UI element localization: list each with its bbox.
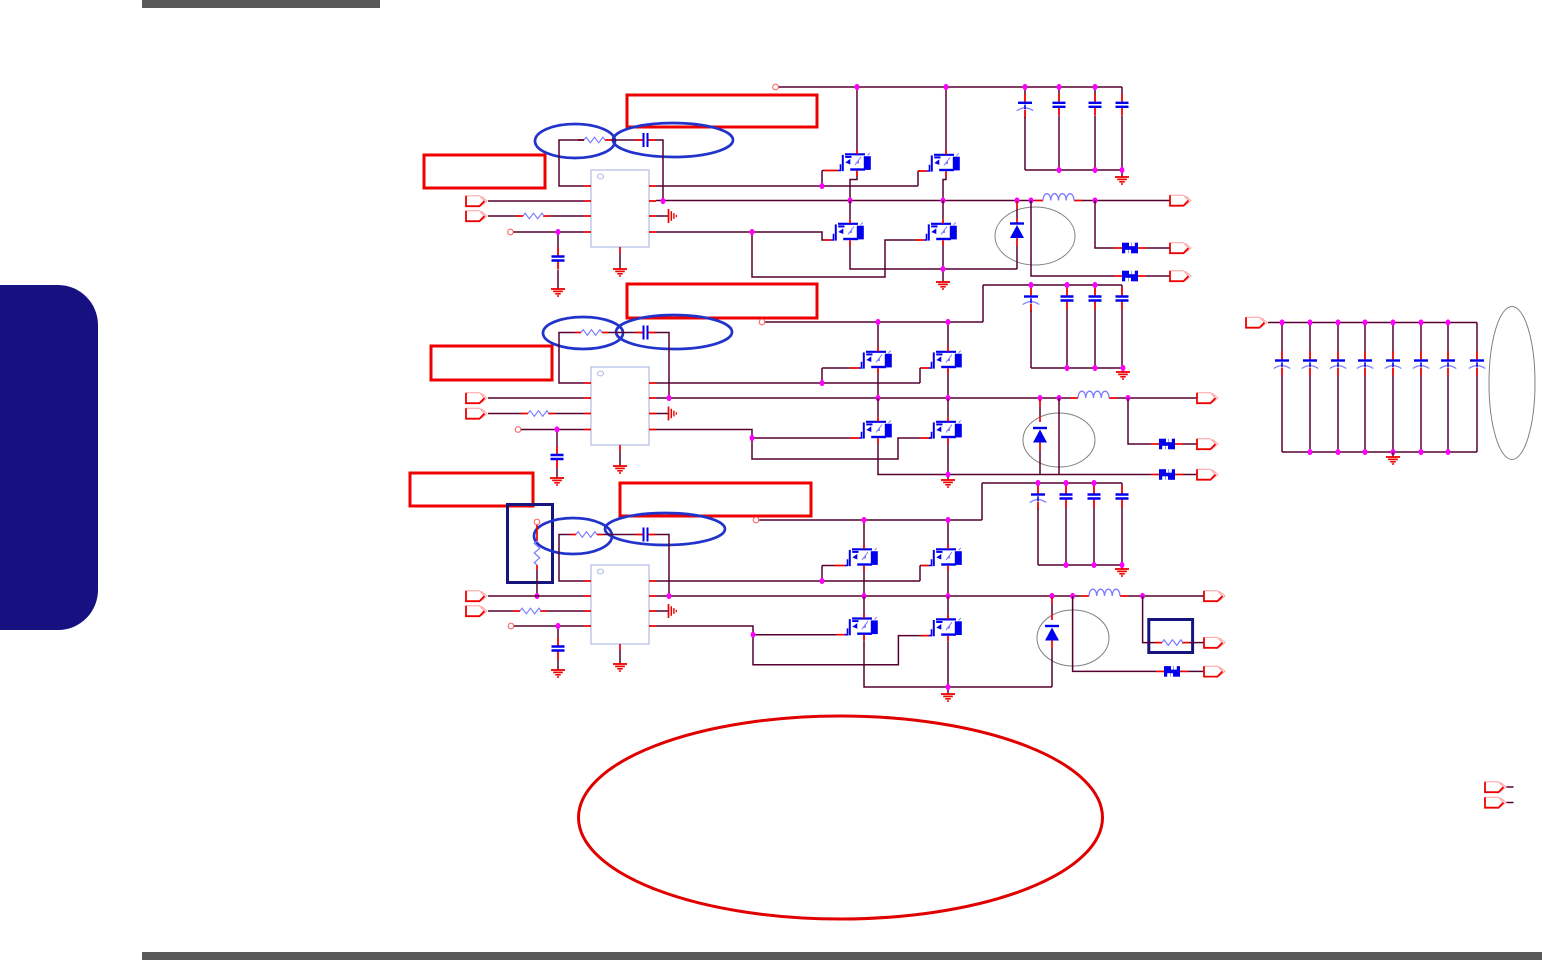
gate stubs low-side B1 <box>824 239 924 241</box>
no-connect circle rail B3 <box>753 517 759 523</box>
ground IC U2 <box>613 466 627 473</box>
wire VIN top rail B1 <box>778 86 1122 88</box>
junction dot UGATE B2 <box>820 380 825 386</box>
wire R6 to C17 B3 <box>603 534 636 536</box>
capacitor C18 soft-start B3 <box>557 626 559 638</box>
navy annotation box around R5 B3 <box>508 505 553 583</box>
top header bar <box>142 0 380 8</box>
junction dots bank3 <box>1036 480 1041 486</box>
input flag PWM3 B3 <box>466 606 487 616</box>
capacitor C7 bank2 (polarized) <box>1030 285 1032 288</box>
red annotation box B3 left <box>410 473 533 506</box>
red annotation box B2 top <box>627 284 817 318</box>
wire Q10 source to phase B3 <box>947 571 949 595</box>
wire IC U1 ground lead <box>619 253 621 269</box>
resistor R6 compensation B3 <box>570 534 603 536</box>
wire IC U3 ground lead <box>619 650 621 664</box>
input flag VIN cap array <box>1246 317 1267 327</box>
wire H-FET drain columns B2 <box>878 322 948 348</box>
capacitor C14 bank3 <box>1065 483 1067 486</box>
IC U2 right pin stubs <box>649 383 656 430</box>
inductor L1 B1 <box>1035 200 1082 202</box>
signal ground IC pin3 right B3 <box>656 610 668 612</box>
IC U2 bottom pin stub <box>619 445 621 451</box>
wire cap bank rail B2/B3 <box>982 483 1122 520</box>
grey ellipse annotation cap array <box>1489 307 1535 460</box>
wire Q6 source to phase B2 <box>947 374 949 398</box>
wire flag to IC pin2 B1 <box>488 200 584 202</box>
bowtie jumper JP4 B2 <box>1159 469 1175 481</box>
IC U3 PWM controller <box>591 565 649 644</box>
resistor R3 compensation B2 <box>575 332 608 334</box>
blue annotation ellipse around R compensation B1 <box>535 124 615 158</box>
junction dots input bank bottom B1 <box>1057 167 1062 173</box>
blue annotation ellipse around C compensation B1 <box>613 123 733 157</box>
capacitor C16 bank3 <box>1116 486 1129 508</box>
grey ellipse around D2 B2 <box>1023 413 1095 467</box>
ground C6 B1 <box>551 289 565 296</box>
junction dots array bottom rail <box>1308 449 1313 455</box>
wire H-FET drain columns B3 <box>864 520 948 545</box>
transistor Q1 high-side B1 <box>838 150 871 176</box>
ground PGND B2 <box>941 480 955 487</box>
wire flag to R4 B2 <box>488 413 521 415</box>
ground bank2 <box>1116 372 1130 379</box>
diode D2 B2 <box>1039 399 1041 422</box>
wire Q2 source to phase B1 <box>943 177 946 200</box>
capacitor C11 compensation B2 <box>636 326 656 340</box>
gate stubs low-side B2 <box>850 437 931 439</box>
blue annotation ellipse around R compensation B3 <box>534 518 612 554</box>
signal ground IC pin3 right B2 <box>656 413 668 415</box>
resistor R2 input B1 <box>516 215 550 217</box>
wire Q7 drain B2 <box>877 398 879 417</box>
resistor R7 input B3 <box>513 610 547 612</box>
wire sense leg post-inductor B3 <box>1143 596 1155 643</box>
wire output cap bank rail B1/B2 <box>983 285 1122 322</box>
ground input bank B1 <box>1115 177 1129 184</box>
wire flag to IC pin2 B3 <box>488 595 584 597</box>
wire R6 to IC pin B3 <box>559 535 584 582</box>
capacitor C5 compensation B1 <box>636 133 656 147</box>
transistor Q10 high-side B3 <box>929 545 962 571</box>
grey ellipse around D3 B3 <box>1037 610 1109 666</box>
inductor L3 B3 <box>1081 595 1128 597</box>
capacitor C17 compensation B3 <box>636 528 656 542</box>
capacitor C2 input bank B1 <box>1058 87 1060 95</box>
wire sense leg post-inductor B2 <box>1128 398 1151 444</box>
wire row4 to IC pin4 B3 <box>514 625 584 627</box>
output flag VSEN2 B2 <box>1197 439 1218 449</box>
wire PHASE rail B2 <box>656 397 1070 399</box>
wire R5 to row B3 <box>536 570 538 596</box>
IC U3 bottom pin stub <box>619 644 621 650</box>
transistor Q3 low-side B1 <box>831 219 864 245</box>
resistor R4 input B2 <box>521 413 555 415</box>
wire IC U2 ground lead <box>619 451 621 466</box>
IC U1 right pin stubs <box>649 186 656 232</box>
ground IC U1 <box>613 269 627 276</box>
gate stubs high-side B2 <box>850 367 929 369</box>
wire flag to R7 B3 <box>488 610 513 612</box>
bowtie jumper JP2 B1 <box>1122 270 1138 282</box>
blue annotation ellipse around C compensation B3 <box>605 513 725 545</box>
wire sense leg post-inductor B1 <box>1095 201 1114 249</box>
blue annotation ellipse around R compensation B2 <box>543 317 623 349</box>
wire bank3 bottom rail <box>1038 565 1122 569</box>
ground C12 B2 <box>550 478 564 485</box>
capacitor C15 bank3 <box>1093 483 1095 486</box>
wire source/PGND rail B1 <box>850 246 1017 283</box>
capacitor C3 input bank B1 <box>1094 87 1096 95</box>
wire R2 to IC pin3 B1 <box>550 215 584 217</box>
junction dots top rail B2 <box>876 319 881 325</box>
junction dot UGATE B1 <box>820 183 825 189</box>
wire H-FET drain columns B1 <box>857 87 946 151</box>
transistor Q6 high-side B2 <box>929 347 962 373</box>
capacitor C10 bank2 <box>1116 288 1129 310</box>
wire R1 to IC pin B1 <box>559 140 584 186</box>
junction dot C6 tap B1 <box>556 229 561 235</box>
gate stubs high-side B3 <box>834 565 929 567</box>
wire sense leg to FB flag B1 <box>1031 201 1114 277</box>
left navy side tab <box>0 285 98 630</box>
diode D3 B3 <box>1051 597 1053 620</box>
inductor L2 B2 <box>1070 397 1117 399</box>
junction dot PGND B2 <box>946 471 951 477</box>
grey ellipse around D1 B1 <box>995 207 1075 265</box>
wire LGATE net B1 <box>656 232 916 277</box>
wire VIN top rail B3 <box>759 519 982 521</box>
input flag EN2 B2 <box>466 393 487 403</box>
output flag VCORE3 B3 <box>1204 591 1225 601</box>
output flag RTN B2 <box>1197 469 1218 479</box>
wire R3 to C11 B2 <box>608 332 636 334</box>
junction dot UGATE B3 <box>820 578 825 584</box>
no-connect circle rail B1 <box>773 84 779 90</box>
output flag bottom-right B <box>1485 797 1506 807</box>
capacitor C20 array (polarized) <box>1281 323 1283 352</box>
transistor Q8 low-side B2 <box>929 417 962 443</box>
no-connect circle rail B2 <box>759 319 765 325</box>
wire source/PGND rail B2 <box>878 444 1151 481</box>
ground bank3 <box>1115 569 1129 576</box>
junction dots bank2 <box>1029 282 1034 288</box>
wire Q9 source to phase B3 <box>863 571 865 595</box>
ground cap array <box>1392 452 1394 457</box>
capacitor C25 array (polarized) <box>1420 323 1422 352</box>
output flag bottom-right A <box>1485 782 1506 792</box>
output flag RTN3 B3 <box>1204 666 1225 676</box>
junction dot C12 tap B2 <box>555 426 560 432</box>
wire Q4 drain B1 <box>942 201 944 220</box>
capacitor C4 input bank B1 <box>1116 94 1129 116</box>
bowtie jumper JP1 B1 <box>1122 242 1138 254</box>
ground PGND B1 <box>936 282 950 289</box>
capacitor C6 soft-start B1 <box>557 232 559 248</box>
output flag FB B1 <box>1170 271 1191 281</box>
wire R4 to IC pin3 B2 <box>555 413 584 415</box>
capacitor C8 bank2 <box>1066 285 1068 288</box>
wire R8 to flag B3 <box>1189 642 1204 644</box>
wire PHASE rail B3 <box>656 595 1081 597</box>
capacitor C1 input bank B1 (polarized) <box>1024 87 1026 95</box>
wire flag to IC pin2 B2 <box>488 397 584 399</box>
capacitor C13 bank3 (polarized) <box>1037 483 1039 486</box>
capacitor C21 array (polarized) <box>1309 323 1311 352</box>
wire Q5 source to phase B2 <box>877 374 879 398</box>
wire Q11 drain B3 <box>863 596 865 614</box>
capacitor C23 array (polarized) <box>1364 323 1366 352</box>
bowtie jumper JP3 B2 <box>1159 438 1175 450</box>
wire UGATE net B3 <box>656 566 921 582</box>
IC U1 left pin stubs <box>584 186 591 232</box>
wire LGATE net B3 <box>656 626 921 665</box>
ground C18 B3 <box>551 670 565 677</box>
big red annotation ellipse <box>579 716 1103 919</box>
transistor Q2 high-side B1 <box>927 150 960 176</box>
blue annotation ellipse around C compensation B2 <box>616 315 732 349</box>
output flag VSEN B1 <box>1170 243 1191 253</box>
wire source/PGND rail B3 <box>864 640 1052 694</box>
wire C17 to feedback node B3 <box>656 535 670 597</box>
red annotation box B1 left <box>424 155 545 188</box>
capacitor C26 array (polarized) <box>1447 323 1449 352</box>
junction dot PGND B3 <box>946 684 951 690</box>
junction dot LGATE B2 <box>750 435 755 441</box>
wire input bank bottom rail B1 <box>1025 170 1122 177</box>
junction dot PGND B1 <box>941 266 946 272</box>
bowtie jumper JP5 B3 <box>1164 665 1180 677</box>
junction dot R5 B3 <box>535 593 540 599</box>
wire R1 to C5 B1 <box>611 139 636 141</box>
no-connect circle row4 B1 <box>508 229 514 235</box>
transistor Q5 high-side B2 <box>859 347 892 373</box>
capacitor C22 array (polarized) <box>1337 323 1339 352</box>
red annotation box B1 top <box>627 95 817 127</box>
transistor Q12 low-side B3 <box>929 615 962 641</box>
wire Q8 drain B2 <box>947 398 949 417</box>
IC U1 PWM controller <box>591 170 649 247</box>
input flag PWM1 B1 <box>466 211 487 221</box>
transistor Q11 low-side B3 <box>845 614 878 640</box>
resistor R8 sense B3 <box>1155 642 1189 644</box>
transistor Q7 low-side B2 <box>859 417 892 443</box>
resistor R5 divider B3 <box>536 525 538 570</box>
junction dot LGATE B1 <box>750 229 755 235</box>
wire VIN top rail B2 <box>765 321 983 323</box>
capacitor C24 array (polarized) <box>1392 323 1394 352</box>
wire row4 to IC pin4 B2 <box>521 429 584 431</box>
ground IC U3 <box>613 664 627 671</box>
capacitor C27 array (polarized) <box>1476 323 1478 352</box>
no-connect circle R5 top B3 <box>534 519 540 525</box>
IC U3 left pin stubs <box>584 581 591 626</box>
wire UGATE net B1 <box>656 171 920 187</box>
IC U2 PWM controller <box>591 367 649 445</box>
wire UGATE net B2 <box>656 368 921 383</box>
bottom footer bar <box>142 952 1542 960</box>
IC U2 left pin stubs <box>584 383 591 430</box>
gate stubs high-side B1 <box>824 170 927 173</box>
wire row4 to IC pin4 B1 <box>514 231 585 233</box>
capacitor C12 soft-start B2 <box>556 430 558 447</box>
red annotation box B2 left <box>431 346 552 380</box>
navy annotation box around R8 B3 <box>1149 620 1193 653</box>
wire R3 to IC pin B2 <box>559 333 584 384</box>
capacitor C9 bank2 <box>1094 285 1096 288</box>
input flag EN1 B1 <box>466 196 487 206</box>
wire sense leg to PGND flag B2 <box>1058 398 1060 475</box>
red annotation box B3 top <box>620 483 811 516</box>
wire Q1 source to phase B1 <box>850 176 857 199</box>
junction dots top rail B1 <box>855 84 860 90</box>
IC U1 bottom pin stub <box>619 247 621 253</box>
junction dot LGATE B3 <box>751 632 756 638</box>
junction dots PHASE rail B2 <box>667 395 672 401</box>
transistor Q4 low-side B1 <box>924 219 957 245</box>
wire C5 to feedback node B1 <box>656 140 664 201</box>
resistor R1 compensation B1 <box>578 139 611 141</box>
junction dots array top rail <box>1280 319 1285 325</box>
transistor Q9 high-side B3 <box>845 545 878 571</box>
wire cap array bottom rail <box>1282 451 1477 453</box>
IC U3 right pin stubs <box>649 581 656 626</box>
wire flag to R2 B1 <box>488 215 516 217</box>
output flag VSEN3 B3 <box>1204 637 1225 647</box>
wire sense leg to RTN flag B3 <box>1073 596 1156 671</box>
no-connect circle row4 B2 <box>515 427 521 433</box>
wire R7 to IC pin3 B3 <box>547 610 584 612</box>
input flag EN3 B3 <box>466 591 487 601</box>
wire PHASE rail B1 <box>656 200 1035 202</box>
no-connect circle row4 B3 <box>508 623 514 629</box>
wire Q12 drain B3 <box>947 596 949 615</box>
junction dots top rail B3 <box>862 517 867 523</box>
wire C11 to feedback node B2 <box>656 333 670 399</box>
signal ground IC pin3 right B1 <box>656 215 668 217</box>
junction dots PHASE rail B1 <box>661 198 666 204</box>
output flag VCORE2 B2 <box>1197 393 1218 403</box>
input flag PWM2 B2 <box>466 408 487 418</box>
diode D1 B1 <box>1016 201 1018 223</box>
junction dots PHASE rail B3 <box>667 593 672 599</box>
wire bank2 bottom rail <box>1031 368 1123 372</box>
junction dot C18 tap B3 <box>556 623 561 629</box>
wire cap array top rail <box>1268 322 1477 324</box>
wire Q3 drain B1 <box>849 201 851 220</box>
ground PGND B3 <box>941 694 955 701</box>
wire LGATE net B2 <box>656 430 920 460</box>
gate stubs low-side B3 <box>836 634 929 637</box>
output flag VCORE1 B1 <box>1170 195 1191 205</box>
